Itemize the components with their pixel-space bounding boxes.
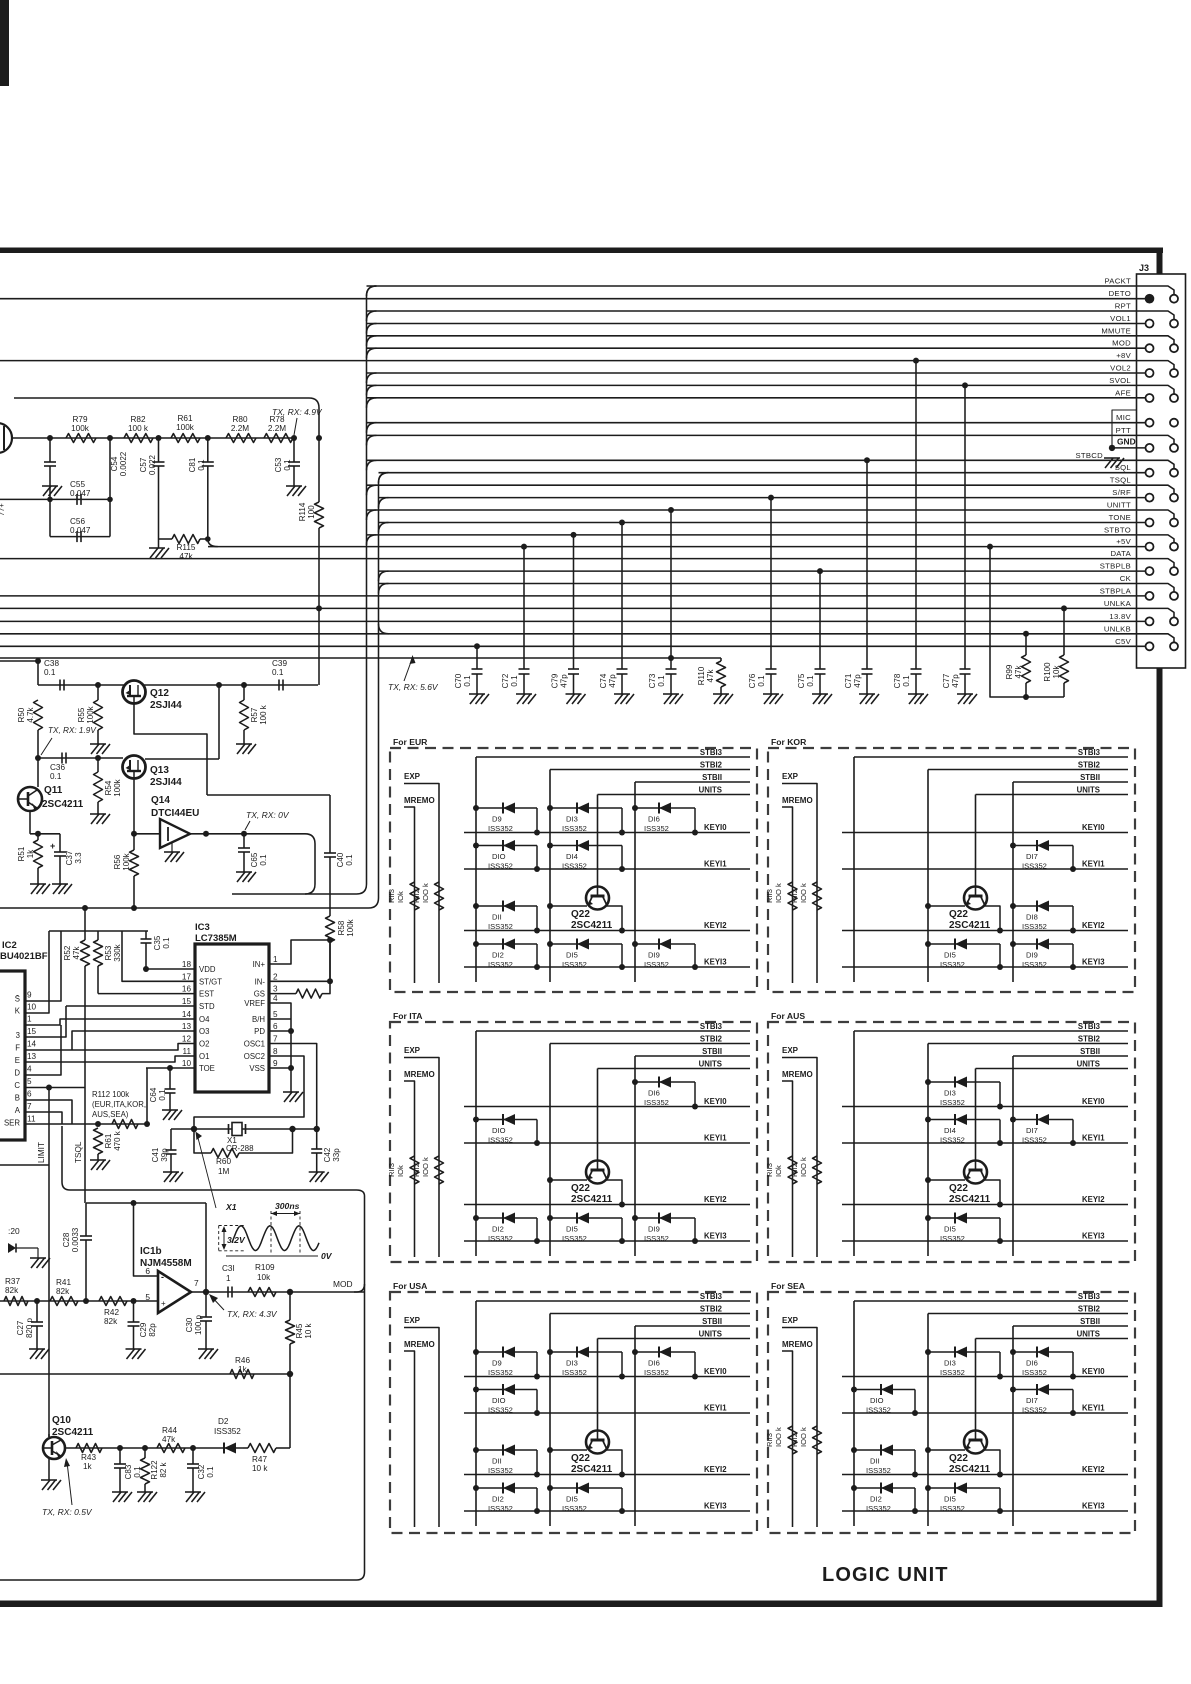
svg-text:7: 7 bbox=[273, 1035, 278, 1044]
wire STB11 drop For USA bbox=[634, 1326, 636, 1526]
svg-text:300ns: 300ns bbox=[275, 1201, 300, 1211]
wire STB13 drop For SEA bbox=[853, 1301, 855, 1526]
svg-text:82k: 82k bbox=[5, 1286, 19, 1295]
wire STBCD bbox=[367, 460, 1175, 469]
wire RPT bbox=[367, 311, 1175, 320]
capacitor C55 bbox=[0, 498, 110, 500]
svg-text:IOO k: IOO k bbox=[421, 1157, 430, 1177]
capacitor C54 bbox=[49, 438, 51, 462]
resistor R57 bbox=[241, 682, 247, 688]
svg-text:Q22: Q22 bbox=[949, 909, 968, 920]
svg-text:R46: R46 bbox=[235, 1356, 250, 1365]
diode DI5 For EUR bbox=[547, 941, 553, 947]
resistor R100 bbox=[1061, 605, 1067, 611]
svg-text:R55: R55 bbox=[77, 707, 86, 722]
svg-text:EXP: EXP bbox=[404, 772, 421, 781]
svg-text:ISS352: ISS352 bbox=[562, 960, 587, 969]
trunk riser 2 bbox=[379, 473, 389, 898]
wire IC2 pin7 bbox=[25, 1112, 62, 1124]
svg-text:7: 7 bbox=[194, 1278, 199, 1288]
capacitor C38 bbox=[59, 680, 61, 691]
svg-text:EXP: EXP bbox=[404, 1046, 421, 1055]
svg-text:DIO: DIO bbox=[492, 1126, 506, 1135]
svg-text:-: - bbox=[161, 1272, 164, 1282]
ground Q10 bbox=[48, 1459, 50, 1480]
svg-text:C40: C40 bbox=[336, 852, 345, 867]
svg-text:C41: C41 bbox=[151, 1147, 160, 1162]
svg-text:KEYI2: KEYI2 bbox=[1082, 1465, 1105, 1474]
svg-text:UNITS: UNITS bbox=[1077, 1330, 1100, 1339]
svg-text:MREMO: MREMO bbox=[782, 1340, 813, 1349]
svg-text:STBI2: STBI2 bbox=[700, 1035, 723, 1044]
svg-text:IC2: IC2 bbox=[2, 940, 17, 951]
svg-text:TX, RX: 1.9V: TX, RX: 1.9V bbox=[48, 726, 97, 735]
svg-text:0.1: 0.1 bbox=[463, 675, 472, 687]
resistor R112 For ITA bbox=[435, 1156, 444, 1184]
capacitor C78 bbox=[913, 358, 919, 364]
wire OSC1 bbox=[269, 1044, 317, 1130]
capacitor C41 bbox=[170, 1129, 172, 1150]
diode DI2 For EUR bbox=[473, 941, 479, 947]
svg-text:+5V: +5V bbox=[1116, 537, 1131, 546]
svg-text:C36: C36 bbox=[50, 763, 65, 772]
svg-text:STBI2: STBI2 bbox=[1078, 761, 1101, 770]
svg-text:RII3: RII3 bbox=[765, 889, 774, 903]
svg-text:C39: C39 bbox=[272, 659, 287, 668]
svg-text:18: 18 bbox=[182, 960, 192, 969]
svg-text:10: 10 bbox=[182, 1059, 192, 1068]
svg-text:KEYI0: KEYI0 bbox=[704, 1097, 727, 1106]
svg-text:VOL2: VOL2 bbox=[1110, 364, 1131, 373]
svg-text:STBII: STBII bbox=[1080, 1047, 1100, 1056]
wire rail 908 bbox=[0, 898, 379, 908]
svg-text:KEYI0: KEYI0 bbox=[704, 1367, 727, 1376]
ground VSS bbox=[283, 1091, 299, 1093]
svg-text:D2: D2 bbox=[218, 1417, 229, 1426]
svg-text:100k: 100k bbox=[113, 778, 122, 796]
diode D2 bbox=[215, 1447, 243, 1449]
capacitor C79 bbox=[571, 532, 577, 538]
wire STBI2 For SEA bbox=[928, 1313, 1128, 1315]
svg-text:MREMO: MREMO bbox=[782, 796, 813, 805]
wire STBII For SEA bbox=[1013, 1325, 1128, 1327]
svg-text:ISS352: ISS352 bbox=[562, 1504, 587, 1513]
svg-text:DI3: DI3 bbox=[566, 1359, 578, 1368]
svg-text:0.1: 0.1 bbox=[206, 1466, 215, 1478]
resistor R113 For SEA bbox=[788, 1426, 797, 1454]
svg-text:EST: EST bbox=[199, 990, 214, 999]
svg-text:S/RF: S/RF bbox=[1112, 488, 1131, 497]
svg-text:8: 8 bbox=[273, 1047, 278, 1056]
wire KEY11 For USA bbox=[464, 1412, 750, 1414]
svg-text:100: 100 bbox=[307, 505, 316, 519]
svg-text:9: 9 bbox=[273, 1059, 278, 1068]
svg-text:3.3: 3.3 bbox=[74, 852, 83, 864]
svg-text:X1: X1 bbox=[225, 1202, 237, 1212]
wire UNITS drop / Q22 collector For SEA bbox=[975, 1339, 977, 1431]
svg-text:UNITS: UNITS bbox=[699, 786, 722, 795]
svg-text::20: :20 bbox=[8, 1226, 20, 1236]
svg-text:VREF: VREF bbox=[244, 999, 265, 1008]
diode DI6 For SEA bbox=[1010, 1349, 1016, 1355]
wire STB11 drop For ITA bbox=[634, 1056, 636, 1256]
wire 13.8V bbox=[0, 620, 1146, 622]
svg-text:IOO k: IOO k bbox=[774, 1427, 783, 1447]
svg-text:470 k: 470 k bbox=[113, 1130, 122, 1151]
wire STB13 drop For KOR bbox=[853, 757, 855, 982]
connector pin DETO (filled) bbox=[1145, 294, 1155, 304]
svg-text:4.7k: 4.7k bbox=[26, 706, 35, 722]
svg-text:ISS352: ISS352 bbox=[644, 960, 669, 969]
resistor R51 bbox=[34, 840, 43, 868]
wire +5V pull-up rail bbox=[987, 544, 993, 550]
svg-text:DTCI44EU: DTCI44EU bbox=[151, 808, 199, 819]
wire UNITT bbox=[367, 510, 1175, 519]
wire STB12 drop For EUR bbox=[549, 770, 551, 983]
svg-text:E: E bbox=[15, 1056, 20, 1065]
svg-text:R61: R61 bbox=[177, 414, 192, 423]
svg-text:(EUR,ITA,KOR,: (EUR,ITA,KOR, bbox=[92, 1100, 146, 1109]
svg-text:C81: C81 bbox=[188, 457, 197, 472]
connector pins right column bbox=[1170, 295, 1178, 303]
connector stub circle left edge bbox=[0, 423, 12, 453]
svg-text:O3: O3 bbox=[199, 1027, 209, 1036]
wire STB12 drop For SEA bbox=[927, 1314, 929, 1527]
svg-text:KEYI3: KEYI3 bbox=[1082, 1232, 1105, 1241]
svg-text:For EUR: For EUR bbox=[393, 737, 428, 747]
svg-text:STBI2: STBI2 bbox=[700, 1305, 723, 1314]
wire STB11 drop For AUS bbox=[1012, 1056, 1014, 1256]
svg-text:0.1: 0.1 bbox=[902, 675, 911, 687]
wire main RC line bbox=[12, 437, 294, 439]
wire KEY13 For AUS bbox=[842, 1240, 1128, 1242]
svg-text:DI4: DI4 bbox=[944, 1126, 956, 1135]
svg-text:ISS352: ISS352 bbox=[644, 1098, 669, 1107]
svg-text:D9: D9 bbox=[492, 815, 502, 824]
IC IC2 BU4021BF body bbox=[0, 971, 25, 1140]
svg-text:DI9: DI9 bbox=[1026, 951, 1038, 960]
wire down to D2 row bbox=[289, 1374, 291, 1448]
svg-text:6: 6 bbox=[145, 1266, 150, 1276]
resistor R43 bbox=[76, 1444, 102, 1453]
svg-text:B/H: B/H bbox=[252, 1015, 265, 1024]
wire Q22 emitter For EUR bbox=[606, 906, 623, 931]
svg-text:GND: GND bbox=[1117, 437, 1136, 447]
leader X1 annotation bbox=[197, 1134, 216, 1208]
resistor R79 bbox=[66, 434, 96, 443]
wire KEY11 For SEA bbox=[842, 1412, 1128, 1414]
wire KEY10 For SEA bbox=[842, 1376, 1128, 1378]
transistor Q10 bbox=[43, 1437, 65, 1459]
svg-text:12: 12 bbox=[182, 1035, 192, 1044]
rail y931 bbox=[49, 930, 148, 932]
svg-text:10: 10 bbox=[27, 1003, 37, 1012]
svg-text:ISS352: ISS352 bbox=[940, 960, 965, 969]
svg-text:82 k: 82 k bbox=[159, 1461, 168, 1477]
svg-text:0.047: 0.047 bbox=[70, 526, 91, 535]
diode DI6 For EUR bbox=[632, 805, 638, 811]
diode DI5 For SEA bbox=[925, 1485, 931, 1491]
svg-text:DI7: DI7 bbox=[1026, 852, 1038, 861]
resistor R122 bbox=[142, 1445, 148, 1451]
wire KEY12 For USA bbox=[464, 1474, 750, 1476]
svg-text:O2: O2 bbox=[199, 1040, 209, 1049]
wire VOL1 bbox=[367, 323, 1146, 325]
svg-text:10k: 10k bbox=[1052, 665, 1061, 679]
svg-text:2SC4211: 2SC4211 bbox=[42, 799, 84, 810]
svg-text:STBCD: STBCD bbox=[1075, 451, 1103, 460]
svg-text:+: + bbox=[161, 1299, 166, 1308]
svg-text:KEYI0: KEYI0 bbox=[1082, 1097, 1105, 1106]
wire IN+ riser bbox=[269, 940, 330, 964]
svg-text:0.1: 0.1 bbox=[44, 668, 56, 677]
resistor R113 For AUS bbox=[788, 1156, 797, 1184]
wire UNITS For ITA bbox=[598, 1068, 751, 1070]
svg-text:For AUS: For AUS bbox=[771, 1011, 805, 1021]
diode DII For SEA bbox=[851, 1447, 857, 1453]
wire SVOL bbox=[367, 385, 1175, 394]
wire STB13 drop For ITA bbox=[475, 1031, 477, 1256]
wire STBI3 For SEA bbox=[854, 1300, 1128, 1302]
wire KEY13 For ITA bbox=[464, 1240, 750, 1242]
svg-text:13: 13 bbox=[27, 1052, 37, 1061]
diode DI3 For EUR bbox=[547, 805, 553, 811]
diode DIO For EUR bbox=[473, 843, 479, 849]
wire KEY11 For EUR bbox=[464, 868, 750, 870]
svg-text:TX, RX: 4.9V: TX, RX: 4.9V bbox=[272, 407, 323, 417]
svg-text:ISS352: ISS352 bbox=[1022, 1368, 1047, 1377]
wire MREMO For AUS bbox=[782, 1081, 793, 1257]
diode D9 For USA bbox=[473, 1349, 479, 1355]
transistor Q13 bbox=[123, 756, 146, 779]
svg-text:2SC4211: 2SC4211 bbox=[949, 1194, 991, 1205]
capacitor C53 bbox=[293, 438, 295, 462]
svg-text:0.1: 0.1 bbox=[345, 854, 354, 866]
annotation 0V baseline bbox=[226, 1255, 318, 1257]
svg-text:TSQL: TSQL bbox=[74, 1141, 83, 1163]
svg-text:DI9: DI9 bbox=[648, 1225, 660, 1234]
transistor Q22 For ITA bbox=[586, 1161, 609, 1184]
wire STB12 drop For ITA bbox=[549, 1044, 551, 1257]
svg-text:MMUTE: MMUTE bbox=[1101, 326, 1131, 335]
svg-text:R57: R57 bbox=[250, 707, 259, 722]
diode DI3 For SEA bbox=[925, 1349, 931, 1355]
wire Q14 output bbox=[190, 833, 305, 835]
svg-text:KEYI1: KEYI1 bbox=[704, 1404, 727, 1413]
wire UNITS For SEA bbox=[976, 1338, 1129, 1340]
svg-text:C35: C35 bbox=[153, 935, 162, 950]
wire Q13 drain down to Q14 bbox=[133, 779, 135, 834]
svg-text:MREMO: MREMO bbox=[404, 1070, 435, 1079]
svg-text:R80: R80 bbox=[232, 415, 247, 424]
wire Q11 emitter node bbox=[29, 811, 31, 834]
resistor R113 For KOR bbox=[788, 882, 797, 910]
wire Q22 base For EUR bbox=[550, 905, 587, 907]
capacitor C37 bbox=[59, 834, 61, 852]
svg-text:ISS352: ISS352 bbox=[214, 1427, 241, 1436]
svg-text:STBPLA: STBPLA bbox=[1100, 586, 1132, 595]
wire MREMO For USA bbox=[404, 1351, 415, 1527]
diode DI7 For AUS bbox=[1010, 1117, 1016, 1123]
diode DI2 For SEA bbox=[851, 1485, 857, 1491]
diode DI3 For USA bbox=[547, 1349, 553, 1355]
svg-text:KEYI3: KEYI3 bbox=[704, 1502, 727, 1511]
svg-text:2.2M: 2.2M bbox=[231, 424, 249, 433]
wire STBTO bbox=[367, 535, 1175, 544]
wire UNITS drop / Q22 collector For ITA bbox=[597, 1069, 599, 1161]
wire MOD bbox=[367, 347, 1146, 349]
svg-text:47p: 47p bbox=[853, 674, 862, 688]
svg-text:ISS352: ISS352 bbox=[940, 1368, 965, 1377]
svg-text:4: 4 bbox=[27, 1065, 32, 1074]
diode DIO For USA bbox=[473, 1387, 479, 1393]
svg-text:C3I: C3I bbox=[222, 1264, 235, 1273]
capacitor C31 bbox=[227, 1287, 229, 1298]
svg-text:R42: R42 bbox=[104, 1308, 119, 1317]
svg-text:IOO k: IOO k bbox=[799, 1157, 808, 1177]
resistor R112 For KOR bbox=[813, 882, 822, 910]
diode DI2 For ITA bbox=[473, 1215, 479, 1221]
svg-text:DI2: DI2 bbox=[492, 1495, 504, 1504]
svg-text:RII2: RII2 bbox=[790, 889, 799, 903]
wire y795 gate bias bbox=[207, 794, 330, 796]
resistor R112 For AUS bbox=[813, 1156, 822, 1184]
svg-text:C76: C76 bbox=[748, 673, 757, 688]
svg-text:1M: 1M bbox=[218, 1167, 230, 1176]
wire MOD output bbox=[206, 1291, 290, 1293]
svg-text:0.1: 0.1 bbox=[158, 1089, 167, 1101]
svg-text:C29: C29 bbox=[139, 1322, 148, 1337]
svg-text:0.0022: 0.0022 bbox=[119, 451, 128, 476]
svg-text:82k: 82k bbox=[104, 1317, 118, 1326]
wire UNITS For KOR bbox=[976, 794, 1129, 796]
svg-text:ISS352: ISS352 bbox=[488, 1368, 513, 1377]
svg-text:0.1: 0.1 bbox=[259, 854, 268, 866]
svg-text:UNITS: UNITS bbox=[699, 1060, 722, 1069]
svg-text:TX, RX: 0V: TX, RX: 0V bbox=[246, 810, 290, 820]
svg-text:RII3: RII3 bbox=[387, 1163, 396, 1177]
svg-text:10 k: 10 k bbox=[252, 1464, 268, 1473]
resistor R80 bbox=[226, 434, 256, 443]
wire IC2 pin11 R112 line bbox=[25, 1123, 147, 1125]
svg-text:For USA: For USA bbox=[393, 1281, 427, 1291]
svg-text:77+: 77+ bbox=[0, 503, 6, 516]
wire KEY10 For EUR bbox=[464, 832, 750, 834]
svg-text:C57: C57 bbox=[139, 457, 148, 472]
wire TSQL bbox=[367, 485, 1175, 494]
svg-text:82p: 82p bbox=[148, 1323, 157, 1337]
diode DI5 For AUS bbox=[925, 1215, 931, 1221]
resistor R60 bbox=[194, 1129, 211, 1153]
capacitor C32 bbox=[190, 1445, 196, 1451]
svg-text:IOO k: IOO k bbox=[799, 883, 808, 903]
wire KEY10 For KOR bbox=[842, 832, 1128, 834]
resistor R61 bbox=[171, 434, 200, 443]
svg-text:MREMO: MREMO bbox=[404, 796, 435, 805]
svg-text:C27: C27 bbox=[16, 1320, 25, 1335]
svg-text:5: 5 bbox=[27, 1077, 32, 1086]
capacitor C27 bbox=[36, 1301, 38, 1322]
resistor R99 bbox=[1023, 631, 1029, 637]
svg-text:KEYI2: KEYI2 bbox=[1082, 921, 1105, 930]
wire EXP For USA bbox=[404, 1328, 439, 1528]
svg-text:DI5: DI5 bbox=[944, 1495, 956, 1504]
wire Q22 base For KOR bbox=[928, 905, 965, 907]
svg-text:R114: R114 bbox=[298, 502, 307, 521]
svg-text:47k: 47k bbox=[706, 669, 715, 683]
wire MOD node bbox=[287, 1289, 293, 1295]
svg-text:DI5: DI5 bbox=[566, 1495, 578, 1504]
wire LIMIT to Q10 bbox=[48, 1434, 50, 1437]
wire SQL bbox=[379, 472, 1146, 474]
wire IC2 pin10 bbox=[25, 931, 49, 1013]
svg-text:C70: C70 bbox=[454, 673, 463, 688]
svg-text:AFE: AFE bbox=[1115, 388, 1131, 397]
wire STBII For KOR bbox=[1013, 781, 1128, 783]
svg-text:ISS352: ISS352 bbox=[940, 1234, 965, 1243]
wire STBI3 For KOR bbox=[854, 756, 1128, 758]
svg-text:KEYI1: KEYI1 bbox=[1082, 860, 1105, 869]
svg-text:UNITT: UNITT bbox=[1107, 501, 1131, 510]
svg-text:Q22: Q22 bbox=[949, 1453, 968, 1464]
wire KEY13 For KOR bbox=[842, 966, 1128, 968]
svg-text:SVOL: SVOL bbox=[1109, 376, 1131, 385]
svg-text:MOD: MOD bbox=[333, 1279, 353, 1289]
wire STBI3 For EUR bbox=[476, 756, 750, 758]
svg-text:100k: 100k bbox=[86, 705, 95, 723]
svg-text:R82: R82 bbox=[130, 415, 145, 424]
wire R46 line bbox=[0, 1373, 290, 1375]
resistor R112 For SEA bbox=[813, 1426, 822, 1454]
wire net658 bbox=[0, 657, 721, 659]
svg-text:C32: C32 bbox=[197, 1464, 206, 1479]
svg-text:EXP: EXP bbox=[782, 1046, 799, 1055]
wire IC2 pin1 to IC3 O4 bbox=[25, 1019, 195, 1025]
svg-text:C77: C77 bbox=[942, 673, 951, 688]
svg-text:C: C bbox=[14, 1081, 20, 1090]
svg-text:R47: R47 bbox=[252, 1455, 267, 1464]
wire STB12 drop For KOR bbox=[927, 770, 929, 983]
wire IC2 pin6 bbox=[25, 1100, 72, 1124]
wire KEY11 For AUS bbox=[842, 1142, 1128, 1144]
svg-text:C37: C37 bbox=[65, 850, 74, 865]
svg-text:DI2: DI2 bbox=[492, 951, 504, 960]
svg-text:11: 11 bbox=[27, 1115, 36, 1124]
diode DI9 For ITA bbox=[632, 1215, 638, 1221]
wire TOE bbox=[146, 1067, 195, 1069]
ground GND at J3 bbox=[1109, 445, 1115, 451]
wire DATA bbox=[0, 559, 1174, 568]
svg-text:39p: 39p bbox=[160, 1148, 169, 1162]
resistor R54 bbox=[95, 755, 101, 761]
svg-text:R109: R109 bbox=[255, 1263, 275, 1272]
wire EXP For KOR bbox=[782, 784, 817, 984]
resistor R55 bbox=[95, 682, 101, 688]
wire STB12 drop For AUS bbox=[927, 1044, 929, 1257]
wire Q10 output row bbox=[65, 1447, 215, 1449]
svg-text:RII2: RII2 bbox=[412, 1163, 421, 1177]
transistor Q11 bbox=[18, 787, 42, 811]
film edge bar top-left bbox=[0, 0, 9, 86]
svg-text:2.2M: 2.2M bbox=[268, 424, 286, 433]
svg-text:820 p: 820 p bbox=[25, 1317, 34, 1338]
svg-text:C42: C42 bbox=[323, 1147, 332, 1162]
svg-text:UNLKB: UNLKB bbox=[1104, 624, 1131, 633]
svg-text:DI6: DI6 bbox=[1026, 1359, 1038, 1368]
capacitor C36 bbox=[61, 753, 63, 764]
capacitor C72 bbox=[521, 544, 527, 550]
svg-text:ISS352: ISS352 bbox=[644, 824, 669, 833]
